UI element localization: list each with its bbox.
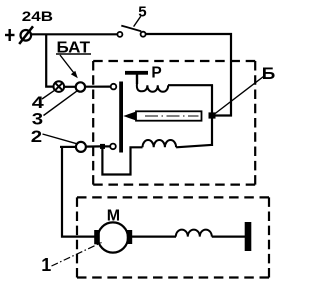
wire drop from top wire to terminal row: [46, 34, 53, 87]
wire L-path junction to bottom coil: [102, 147, 142, 174]
svg-text:5: 5: [138, 4, 146, 20]
wire top coil to right: [168, 84, 213, 86]
wire motor to field coil: [132, 236, 176, 238]
relay bottom coil winding: [143, 140, 177, 147]
label 1 leader: [52, 243, 102, 267]
motor brush left: [94, 230, 100, 244]
relay contact circle bottom: [110, 144, 116, 150]
wire top right: [146, 33, 232, 35]
motor brush right: [127, 230, 132, 244]
relay top coil winding: [137, 78, 168, 92]
terminal clamp 24V (circle with slash): [19, 26, 33, 44]
relay contact circle top: [111, 84, 117, 90]
relay plunger core: [123, 111, 201, 120]
junction square: [100, 144, 105, 149]
terminal 2 circle: [76, 142, 86, 152]
motor field coil winding: [176, 230, 212, 237]
svg-text:24В: 24В: [22, 8, 53, 24]
switch 5 lever: [121, 26, 141, 32]
motor end terminal bar: [245, 222, 252, 251]
wire terminal 3 to relay contact: [85, 85, 111, 87]
label 4 leader: [42, 91, 54, 99]
wire outer left down to motor: [62, 146, 95, 237]
terminal 3 circle: [76, 82, 85, 91]
label B leader: [215, 77, 264, 115]
wire junction to bottom contact: [105, 145, 110, 147]
label 5 leader: [134, 16, 141, 26]
label 2 leader: [43, 134, 77, 144]
motor box dashed: [77, 197, 269, 277]
motor circle: [98, 222, 128, 252]
svg-text:1: 1: [41, 255, 51, 275]
wire stub left of terminal 2: [60, 146, 76, 148]
label 3 leader: [44, 91, 78, 116]
bolt B (filled square): [209, 112, 216, 118]
wire between terminal 4 and 3: [64, 86, 75, 88]
label BAT underline: [56, 53, 91, 55]
wire bottom coil to right connector: [176, 145, 213, 148]
wire right vertical from switch: [230, 33, 232, 117]
wire right coil connector vertical: [211, 85, 213, 147]
svg-text:Б: Б: [262, 65, 276, 83]
relay armature bar: [119, 82, 123, 153]
wire top left: [31, 33, 118, 35]
label BAT arrow: [60, 55, 78, 78]
label plus polarity: [5, 29, 15, 41]
svg-text:2: 2: [31, 128, 42, 146]
relay box dashed: [93, 61, 255, 185]
switch 5 contacts: [117, 32, 145, 37]
wire field coil to end bar: [212, 236, 245, 238]
relay contact P T-bar: [125, 71, 148, 75]
wire from B bolt to right vertical: [214, 114, 232, 116]
svg-text:3: 3: [32, 110, 43, 128]
terminal 4 crossed circle: [54, 81, 65, 92]
svg-text:Р: Р: [151, 65, 161, 82]
relay contact P stem: [136, 75, 138, 85]
wire terminal 2 to junction: [86, 145, 101, 147]
